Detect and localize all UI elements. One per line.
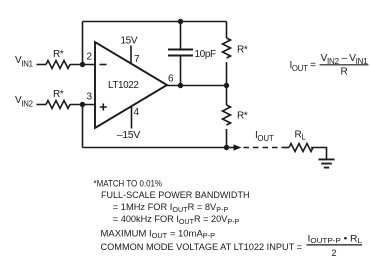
- wire RL to ground: [311, 148, 327, 160]
- op-amp U1 LT1022 triangle: [95, 42, 167, 128]
- resistor R* upper right leads: [226, 22, 228, 86]
- wire resistor to pin 3: [70, 104, 95, 106]
- resistor R* (VIN1): [46, 61, 70, 69]
- svg-text:R*: R*: [237, 111, 248, 122]
- resistor RL zigzag: [289, 144, 313, 152]
- svg-text:15V: 15V: [121, 36, 138, 47]
- svg-text:10pF: 10pF: [195, 49, 216, 60]
- node VIN1 input lead wire: [37, 64, 47, 66]
- junction node output-R: [224, 83, 229, 88]
- junction node cap-toprail: [178, 19, 183, 24]
- junction node output-cap: [178, 83, 183, 88]
- junction node bottom rail output: [224, 145, 229, 150]
- svg-text:R*: R*: [237, 44, 248, 55]
- wire dash to RL: [284, 147, 289, 149]
- resistor R* lower right leads: [226, 86, 228, 148]
- resistor R* upper right zigzag: [223, 38, 231, 58]
- svg-text:4: 4: [134, 107, 140, 118]
- wire noninverting feedback vertical: [82, 105, 84, 148]
- pin 7 supply wire: [130, 46, 132, 65]
- op-amp minus input symbol: [100, 64, 107, 66]
- capacitor C1 bottom wire: [180, 57, 182, 86]
- node VIN2 input lead wire: [37, 104, 47, 106]
- svg-text:LT1022: LT1022: [108, 80, 139, 91]
- resistor R* (VIN2): [46, 101, 70, 109]
- svg-text:R*: R*: [53, 89, 64, 100]
- svg-text:R*: R*: [53, 49, 64, 60]
- op-amp plus input symbol: [100, 104, 107, 111]
- svg-text:COMMON MODE VOLTAGE AT LT1022: COMMON MODE VOLTAGE AT LT1022 INPUT =: [101, 242, 303, 252]
- formula IOUT = (VIN2-VIN1)/R: [290, 53, 369, 78]
- wire top feedback rail: [83, 21, 227, 23]
- wire op-amp output: [167, 85, 227, 87]
- svg-text:–15V: –15V: [117, 130, 141, 141]
- svg-text:3: 3: [87, 92, 93, 103]
- svg-text:R: R: [341, 67, 348, 78]
- ground symbol: [319, 159, 335, 167]
- junction node pin3: [80, 102, 85, 107]
- wire left feedback vertical to inverting input: [82, 22, 84, 65]
- svg-text:2: 2: [87, 52, 93, 63]
- fraction IOUTP-P RL / 2: [307, 233, 363, 257]
- wire resistor to pin 2: [70, 64, 95, 66]
- capacitor C1 plates: [168, 50, 193, 56]
- wire bottom feedback rail: [83, 147, 227, 149]
- svg-text:2: 2: [332, 248, 337, 258]
- svg-text:6: 6: [168, 73, 174, 84]
- arrow IOUT direction: [234, 144, 242, 150]
- svg-text:*MATCH TO 0.01%: *MATCH TO 0.01%: [94, 179, 163, 189]
- capacitor C1 top wire: [180, 22, 182, 49]
- junction node pin2: [80, 62, 85, 67]
- svg-text:FULL-SCALE POWER BANDWIDTH: FULL-SCALE POWER BANDWIDTH: [101, 190, 250, 200]
- wire to arrow: [227, 147, 235, 149]
- svg-text:7: 7: [134, 54, 140, 65]
- resistor R* lower right zigzag: [223, 105, 231, 125]
- dashed wire: [244, 147, 285, 149]
- pin 4 supply wire: [131, 106, 133, 129]
